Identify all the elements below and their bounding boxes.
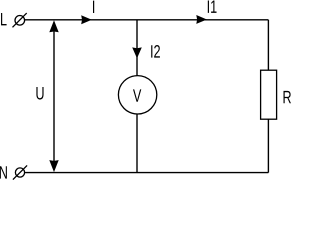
wire top (25, 19, 269, 21)
label I (93, 1, 94, 13)
label R (284, 91, 291, 103)
resistor R (261, 70, 277, 119)
label U (36, 87, 43, 100)
arrow I (81, 15, 92, 24)
wire right lower (267, 119, 269, 172)
voltmeter U1 (118, 76, 156, 114)
wire bottom (25, 172, 269, 174)
terminal L (13, 13, 27, 27)
label V (133, 89, 141, 101)
wire I2 branch (136, 20, 138, 76)
arrowhead I2 (132, 47, 142, 58)
wire voltmeter to bottom (136, 114, 138, 173)
label I2 (151, 45, 160, 58)
label L (1, 13, 7, 25)
voltage arrow U (49, 20, 58, 172)
wire right upper (267, 20, 269, 70)
terminal N (13, 165, 27, 179)
label I1 (208, 1, 217, 13)
label N (0, 166, 7, 178)
arrow I1 (196, 15, 207, 24)
